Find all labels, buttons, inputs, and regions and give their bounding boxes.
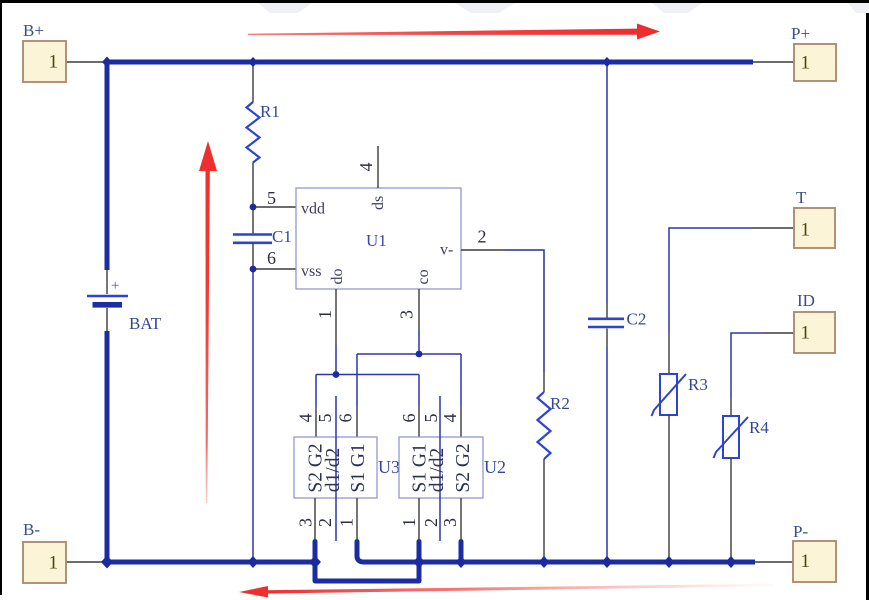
U3 pin3 stub <box>314 498 316 540</box>
port P- <box>793 522 836 582</box>
svg-text:C2: C2 <box>627 310 647 329</box>
U2 d1/d2 floating pin 5/2 <box>439 396 441 541</box>
thermistor R4 <box>714 416 770 458</box>
transistor U3 (dual mosfet) <box>294 437 400 498</box>
wire C2 column upper <box>606 62 608 303</box>
C2 top pin stub <box>606 303 608 318</box>
capacitor C2 <box>588 310 646 329</box>
junction vss node <box>250 266 257 273</box>
svg-text:U1: U1 <box>366 231 387 250</box>
R2 top stub <box>543 372 545 392</box>
svg-text:1: 1 <box>801 53 811 74</box>
svg-text:3: 3 <box>440 518 460 527</box>
port B+ <box>23 21 66 82</box>
junction vdd node <box>250 204 257 211</box>
svg-text:R4: R4 <box>749 418 769 437</box>
wire R1 to vdd node <box>252 163 254 208</box>
svg-text:1: 1 <box>801 220 811 241</box>
svg-text:R2: R2 <box>550 394 570 413</box>
svg-text:1: 1 <box>315 310 335 319</box>
R4 top stub <box>730 398 732 416</box>
svg-text:1: 1 <box>801 551 811 572</box>
frame right <box>866 0 869 600</box>
resistor R1 <box>247 102 280 163</box>
U3 top pin numbers <box>296 414 356 423</box>
wire v- to R2 <box>505 250 544 372</box>
red arrow bottom (discharge direction) <box>239 584 774 598</box>
junction co node <box>416 351 423 358</box>
wire U2 pin1 to bus (thick) <box>417 542 422 563</box>
wire pin6 <box>253 268 296 270</box>
svg-text:3: 3 <box>296 518 316 527</box>
port ID <box>794 291 835 353</box>
svg-text:1: 1 <box>49 553 59 574</box>
wire battery positive drop (thick) <box>105 62 110 270</box>
co stub to U2 pin4 <box>460 406 462 437</box>
svg-text:3: 3 <box>397 310 417 319</box>
C2 bottom pin stub <box>606 329 608 348</box>
junction bottom bus at U2 pin3 <box>456 556 467 568</box>
junction bottom bus at U3 pin3 <box>309 556 321 569</box>
decorative smudges (not labelled further) <box>258 3 312 13</box>
svg-text:4: 4 <box>440 414 460 423</box>
U2 bottom pin numbers <box>399 518 460 527</box>
frame top <box>0 0 869 3</box>
svg-text:P-: P- <box>793 522 808 541</box>
U2 pin3 stub <box>460 498 462 540</box>
R2 bottom wire <box>543 459 545 562</box>
pin 2 stub (v-) <box>461 249 505 251</box>
pin 1 stub (do) <box>335 289 337 345</box>
red arrow left (current up) <box>199 141 217 503</box>
battery BAT <box>87 270 162 333</box>
svg-text:BAT: BAT <box>129 314 162 333</box>
svg-text:C1: C1 <box>272 227 292 246</box>
thermistor R3 <box>652 374 708 416</box>
svg-text:1: 1 <box>49 52 59 73</box>
R3 bottom wire <box>668 415 670 562</box>
U2 pin labels <box>410 443 475 492</box>
R1 column: stub from bus <box>252 62 254 102</box>
pin 4 stub (ds) <box>377 146 379 188</box>
wire U2 pin3 to bus (thick) <box>459 542 464 563</box>
svg-text:S2 G2: S2 G2 <box>453 443 474 492</box>
wire P- stub <box>755 561 793 563</box>
svg-text:R3: R3 <box>688 375 708 394</box>
wire B- stub <box>66 561 107 563</box>
R3 top stub <box>668 332 670 374</box>
junction top bus at C2 column <box>602 57 612 67</box>
junction do node <box>333 371 340 378</box>
capacitor C1 <box>233 227 292 246</box>
IC U1 battery protection <box>296 188 461 289</box>
svg-text:1: 1 <box>399 518 419 527</box>
U3 d1/d2 floating pin 5/2 <box>335 396 337 541</box>
port T <box>794 188 835 248</box>
wire top bus B+ to P+ (thick) <box>107 60 753 65</box>
svg-text:2: 2 <box>478 227 487 247</box>
red arrow top (charge direction) <box>248 24 660 40</box>
transistor U2 (dual mosfet) <box>399 437 506 498</box>
svg-text:1: 1 <box>337 518 357 527</box>
svg-text:+: + <box>111 278 119 294</box>
svg-text:P+: P+ <box>791 24 810 43</box>
U2 top pin numbers <box>399 414 460 423</box>
junction bottom bus at U2 pin1 <box>413 556 425 569</box>
wire U3 pin3 to bus (thick) <box>313 542 318 563</box>
svg-text:ID: ID <box>797 291 815 310</box>
pin 3 stub (co) <box>418 289 420 330</box>
wire bottom jumper (thick) <box>315 560 419 581</box>
svg-text:B-: B- <box>23 520 40 539</box>
svg-text:2: 2 <box>315 518 335 527</box>
frame left <box>0 0 2 595</box>
svg-text:2: 2 <box>421 518 441 527</box>
junction bottom bus at R4 <box>726 556 737 568</box>
wire ID net <box>731 333 762 398</box>
ID stub black <box>762 332 794 334</box>
junction bottom bus at vss column <box>248 556 259 568</box>
wire bottom bus right (thick) <box>419 560 755 565</box>
wire co net <box>357 330 461 406</box>
co stub to U3 pin6 <box>356 406 358 437</box>
junction bottom bus at R2 <box>539 556 550 568</box>
svg-text:T: T <box>796 188 807 207</box>
wire C1 to vss node <box>252 243 254 269</box>
svg-text:4: 4 <box>356 163 376 172</box>
wire T net <box>669 228 752 332</box>
U2 pin1 stub <box>418 498 420 540</box>
wire battery negative drop (thick) <box>105 331 110 562</box>
T stub black <box>752 227 794 229</box>
wire vss node to bottom bus <box>252 269 254 562</box>
svg-text:B+: B+ <box>23 21 44 40</box>
svg-text:do: do <box>329 269 346 285</box>
wire vdd node to C1 <box>252 207 254 234</box>
wire pin5 <box>253 206 296 208</box>
svg-text:co: co <box>415 269 432 284</box>
svg-text:6: 6 <box>336 414 356 423</box>
wire do net <box>316 345 419 406</box>
U3 pin labels <box>306 443 370 492</box>
svg-text:R1: R1 <box>260 102 280 121</box>
junction top bus at battery <box>102 57 112 68</box>
U3 bottom pin numbers <box>296 518 357 527</box>
wire P+ stub <box>753 61 794 63</box>
wire C2 column lower <box>606 347 608 562</box>
wire B+ stub <box>66 61 107 63</box>
do stub to U2 pin6 <box>418 406 420 437</box>
svg-text:U3: U3 <box>378 457 400 477</box>
svg-text:5: 5 <box>421 414 441 423</box>
resistor R2 <box>538 392 570 459</box>
svg-text:U2: U2 <box>484 457 506 477</box>
junction bottom bus at C2 <box>602 556 613 568</box>
svg-text:S1 G1: S1 G1 <box>348 443 369 492</box>
svg-text:ds: ds <box>370 196 387 210</box>
wire U3 pin1 to bus (thick) <box>357 542 419 563</box>
junction bottom bus at battery <box>101 556 113 569</box>
junction bottom bus at R3 <box>664 556 675 568</box>
svg-text:d1/d2: d1/d2 <box>323 448 344 492</box>
svg-text:5: 5 <box>267 188 276 208</box>
svg-text:5: 5 <box>315 414 335 423</box>
U3 pin1 stub <box>356 498 358 540</box>
svg-text:v-: v- <box>440 242 453 259</box>
junction top bus at R1 column <box>248 57 258 67</box>
svg-text:6: 6 <box>267 248 276 268</box>
do stub to U3 pin4 <box>315 406 317 437</box>
bottom bus junctions <box>101 556 737 569</box>
svg-text:d1/d2: d1/d2 <box>427 448 448 492</box>
port P+ <box>791 24 836 81</box>
svg-text:6: 6 <box>399 414 419 423</box>
wire bottom bus left (thick) <box>107 560 318 565</box>
port B- <box>23 520 66 583</box>
svg-text:4: 4 <box>296 414 316 423</box>
svg-text:1: 1 <box>801 323 811 344</box>
svg-text:vdd: vdd <box>301 201 325 218</box>
svg-text:vss: vss <box>301 263 321 280</box>
R4 bottom wire <box>730 458 732 562</box>
